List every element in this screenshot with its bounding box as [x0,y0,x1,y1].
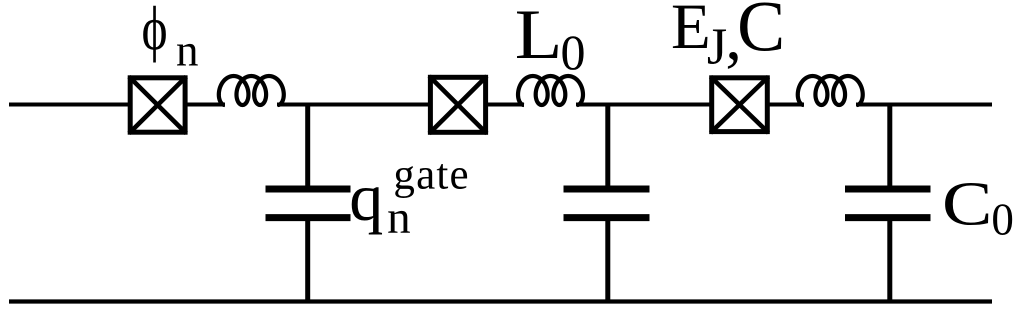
svg-text:L: L [515,0,563,74]
svg-text:gate: gate [393,152,469,199]
svg-text:C: C [737,0,785,67]
svg-text:E: E [671,0,711,63]
svg-text:q: q [349,159,383,235]
svg-text:n: n [387,192,411,244]
svg-text:ϕ: ϕ [142,0,168,63]
svg-text:J: J [707,19,727,76]
svg-text:0: 0 [991,195,1014,245]
svg-text:0: 0 [561,24,586,80]
svg-text:C: C [942,169,992,239]
svg-text:n: n [176,26,199,76]
